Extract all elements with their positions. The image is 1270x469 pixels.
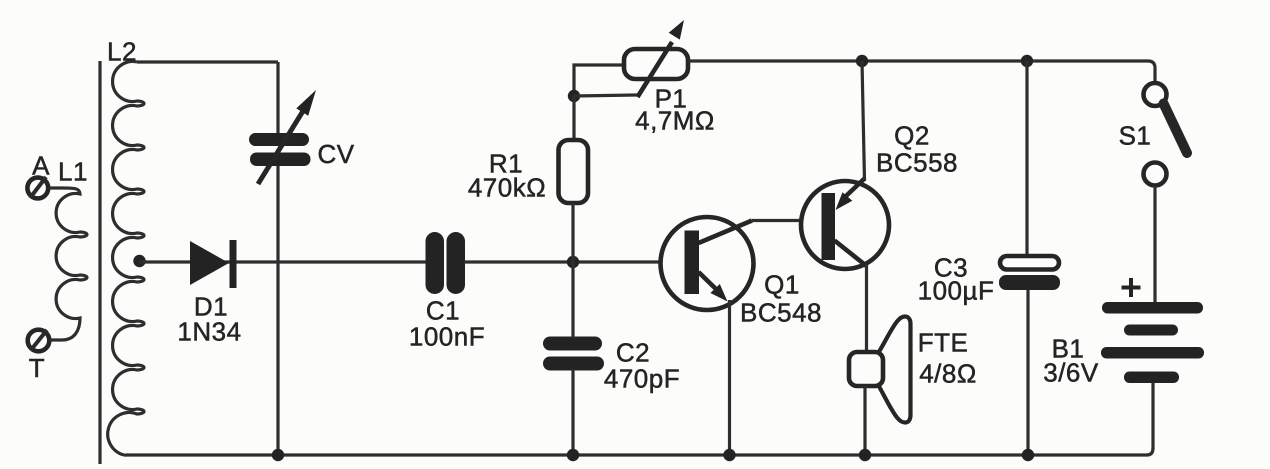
wire Q1 emitter to rail [728, 300, 731, 455]
capacitor CV [249, 90, 316, 184]
svg-text:470pF: 470pF [604, 364, 680, 394]
svg-text:100nF: 100nF [409, 322, 485, 352]
svg-text:A: A [32, 151, 50, 181]
wire node to R1 [572, 96, 575, 140]
node rail CV [272, 449, 284, 461]
transformer core [98, 61, 101, 464]
battery B1 [1101, 278, 1204, 383]
wire rail to Q2 emitter [862, 61, 865, 181]
wire C1 to Q1 base [464, 260, 683, 263]
capacitor C1 [426, 232, 466, 294]
transistor Q1 [661, 217, 754, 310]
wire top rail left to P1 [574, 65, 624, 96]
wire R1 to node [571, 203, 574, 262]
wire Q2 collector to FTE [865, 264, 868, 352]
wire C2 to rail [571, 369, 574, 455]
diode D1 [190, 240, 237, 288]
wire battery to rail [1151, 383, 1154, 449]
transistor Q2 [801, 179, 889, 270]
svg-text:T: T [29, 353, 45, 383]
inductor L1 [49, 188, 87, 340]
svg-text:Q2: Q2 [894, 121, 930, 151]
svg-text:BC558: BC558 [876, 148, 958, 178]
svg-text:L2: L2 [107, 37, 137, 67]
terminal A [27, 178, 48, 199]
svg-text:L1: L1 [58, 157, 88, 187]
terminal T [28, 330, 50, 352]
wire tap to D1 [139, 260, 427, 263]
node R1/C1/C2/Q1 [567, 256, 579, 268]
svg-text:4,7MΩ: 4,7MΩ [635, 106, 715, 136]
node wiper [568, 90, 580, 102]
svg-text:100µF: 100µF [918, 276, 995, 306]
wire node to C2 [571, 262, 574, 338]
node top rail C3 [1021, 55, 1033, 67]
potentiometer P1 [624, 20, 688, 97]
wire wiper to R1 top node [574, 95, 637, 96]
wire bottom rail [126, 448, 1153, 455]
capacitor C2 [543, 337, 604, 371]
node rail C3 [1022, 449, 1034, 461]
wire FTE to rail [863, 386, 866, 455]
svg-text:CV: CV [317, 139, 354, 169]
switch S1 [1144, 83, 1188, 186]
svg-text:3/6V: 3/6V [1043, 358, 1099, 388]
svg-text:S1: S1 [1119, 121, 1152, 151]
node rail C2 [567, 449, 579, 461]
node top rail Q2 [856, 55, 868, 67]
node L2 tap [133, 255, 145, 267]
svg-text:470kΩ: 470kΩ [468, 173, 546, 203]
svg-text:4/8Ω: 4/8Ω [919, 359, 977, 389]
svg-text:1N34: 1N34 [177, 317, 241, 347]
inductor L2 [108, 62, 144, 456]
svg-text:FTE: FTE [918, 328, 969, 358]
wire L2 top to CV [137, 60, 278, 63]
wire S1 to battery [1153, 186, 1156, 302]
speaker FTE [849, 316, 911, 422]
resistor R1 [559, 140, 589, 203]
svg-text:Q1: Q1 [764, 270, 800, 300]
wire CV lower [276, 164, 279, 455]
node rail FTE [859, 449, 871, 461]
wire CV upper [276, 62, 279, 134]
wire Q1 collector to Q2 base [752, 219, 822, 222]
wire top rail right [688, 61, 1155, 83]
node rail Q1 [723, 449, 735, 461]
svg-text:BC548: BC548 [740, 298, 822, 328]
capacitor C3 [999, 61, 1060, 455]
